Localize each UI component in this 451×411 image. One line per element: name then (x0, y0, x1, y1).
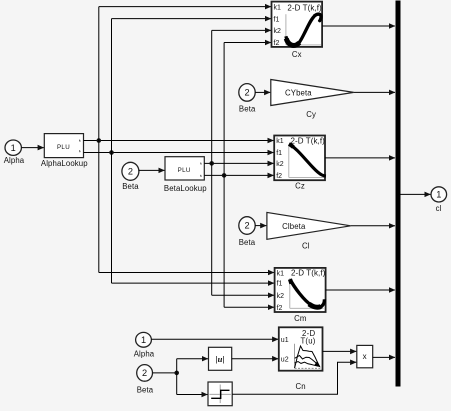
junction dot node B1 (209, 161, 214, 166)
wire Beta to BetaLookup (139, 169, 165, 171)
wire vertical branch A2 (111, 19, 113, 284)
svg-text:f2: f2 (277, 305, 283, 312)
abs block |u| (209, 347, 232, 370)
svg-text:Cn: Cn (295, 382, 305, 391)
svg-text:k2: k2 (276, 161, 284, 168)
wire Beta to Clbeta gain (255, 225, 266, 227)
svg-text:Beta: Beta (239, 104, 256, 113)
svg-text:|u|: |u| (215, 354, 224, 364)
svg-text:u2: u2 (281, 357, 289, 364)
wire Cz out to mux (325, 157, 395, 159)
svg-text:2-D T(k,f): 2-D T(k,f) (290, 136, 325, 145)
svg-text:Cl: Cl (302, 242, 310, 251)
wire Cy out to mux (354, 91, 395, 93)
wire Cm out to mux (326, 289, 395, 291)
svg-text:Beta: Beta (239, 238, 256, 247)
wire branch C up to Abs (177, 358, 208, 360)
wire branch C down to Saturation (177, 394, 208, 396)
wire mux to output port cl (401, 193, 431, 195)
wire branch B1 bottom to Cm k2 (212, 294, 274, 296)
input port 2 Beta (for Cy) (239, 84, 256, 114)
lookup table block Cx (2-D T(k,f)) (272, 2, 323, 60)
gain block Clbeta (Cl) (267, 212, 351, 250)
svg-text:f2: f2 (276, 173, 282, 180)
junction dot node B2 (222, 173, 227, 178)
svg-text:k2: k2 (277, 293, 285, 300)
wire Cn out to product in1 (323, 350, 357, 352)
lookup block AlphaLookup (PLU) (41, 134, 88, 169)
svg-text:BetaLookup: BetaLookup (164, 184, 207, 193)
wire AlphaLookup out2 to Cz f1 (84, 152, 274, 154)
wire Beta to CYbeta gain (255, 91, 270, 93)
wire vertical branch B2 (223, 43, 225, 308)
svg-text:k1: k1 (276, 138, 284, 145)
svg-text:1: 1 (436, 190, 441, 200)
svg-text:CYbeta: CYbeta (285, 89, 312, 98)
svg-text:f1: f1 (277, 281, 283, 288)
input port 1 Alpha (top-left) (4, 140, 25, 165)
svg-text:f1: f1 (274, 17, 280, 24)
svg-text:2: 2 (244, 221, 249, 231)
svg-text:x: x (363, 352, 367, 361)
input port 2 Beta (bottom) (137, 365, 154, 395)
input port 2 Beta (for Cl) (239, 217, 256, 247)
svg-text:1: 1 (141, 335, 146, 345)
output port 1 cl (431, 187, 447, 213)
gain block CYbeta (Cy) (271, 80, 354, 120)
wire Alpha to Cn u1 (151, 338, 278, 340)
junction dot node A1 (97, 138, 102, 143)
wire BetaLookup out1 to Cz k2 (204, 162, 273, 164)
svg-text:Cz: Cz (295, 182, 305, 191)
svg-text:Clbeta: Clbeta (282, 222, 306, 231)
wire AlphaLookup out1 to Cz k1 (84, 140, 274, 142)
svg-text:Alpha: Alpha (134, 350, 155, 359)
wire Beta to branch node C (153, 372, 177, 374)
wire branch B1 top to Cx k2 (212, 29, 271, 31)
wire Alpha to AlphaLookup (21, 147, 43, 149)
svg-text:u1: u1 (281, 337, 289, 344)
svg-text:Cm: Cm (294, 314, 306, 323)
svg-text:1: 1 (11, 143, 16, 153)
svg-text:T(u): T(u) (300, 337, 315, 346)
wire branch A2 bottom to Cm f1 (112, 282, 275, 284)
product block x (357, 345, 373, 367)
svg-text:cl: cl (436, 204, 442, 213)
junction dot node A2 (109, 150, 114, 155)
svg-text:Alpha: Alpha (4, 156, 25, 165)
lookup table block Cn (2-D T(u)) (279, 327, 323, 391)
svg-text:Beta: Beta (122, 182, 139, 191)
svg-text:2: 2 (244, 88, 249, 98)
svg-text:2: 2 (128, 166, 133, 176)
svg-text:PLU: PLU (57, 144, 70, 151)
svg-text:f2: f2 (274, 40, 280, 47)
junction dot node C (174, 371, 179, 376)
wire product out to mux (373, 356, 395, 358)
wire branch A2 top to Cx f1 (112, 18, 272, 20)
svg-text:k2: k2 (274, 28, 282, 35)
svg-text:AlphaLookup: AlphaLookup (41, 159, 88, 168)
svg-text:2-D T(k,f): 2-D T(k,f) (287, 3, 322, 12)
input port 1 Alpha (bottom) (134, 332, 155, 358)
wire branch B2 bottom to Cm f2 (224, 306, 274, 308)
input port 2 Beta (mid-left) (122, 162, 139, 191)
svg-text:2-D T(k,f): 2-D T(k,f) (291, 268, 326, 277)
wire BetaLookup out2 to Cz f2 (204, 174, 273, 176)
wire Saturation out to product in2 (232, 362, 356, 394)
svg-text:k1: k1 (274, 5, 282, 12)
lookup table block Cm (2-D T(k,f)) (275, 268, 326, 323)
wire Cl out to mux (351, 225, 395, 227)
svg-text:2: 2 (142, 368, 147, 378)
lookup table block Cz (2-D T(k,f)) (274, 136, 326, 191)
svg-text:f1: f1 (276, 150, 282, 157)
wire Cx out to mux (322, 25, 395, 27)
wire Abs out to Cn u2 (232, 358, 279, 360)
svg-text:k1: k1 (277, 271, 285, 278)
saturation block (208, 382, 232, 406)
wire branch A1 bottom to Cm k1 (99, 272, 274, 274)
svg-text:Cy: Cy (306, 110, 316, 119)
wire branch A1 top to Cx k1 (99, 6, 271, 8)
lookup block BetaLookup (PLU) (164, 157, 207, 194)
mux bar (396, 1, 401, 387)
wire vertical branch A1 (98, 7, 100, 273)
svg-text:Beta: Beta (137, 385, 154, 394)
wire branch B2 top to Cx f2 (224, 42, 271, 44)
wire vertical branch B1 (211, 30, 213, 295)
svg-text:Cx: Cx (292, 50, 302, 59)
wire vertical branch node C (176, 359, 178, 395)
svg-text:PLU: PLU (178, 167, 191, 174)
